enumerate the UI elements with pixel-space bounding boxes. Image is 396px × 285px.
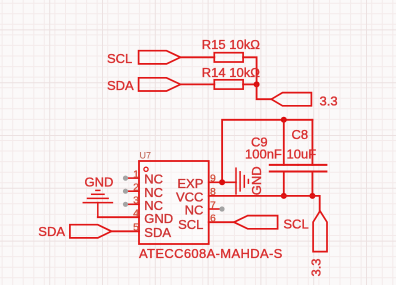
svg-text:SCL: SCL [107,51,132,66]
svg-text:GND: GND [249,166,264,195]
power flag 3.3 (bottom, pointing up) [313,211,327,252]
svg-text:10uF: 10uF [287,147,317,162]
net flag SDA (bottom) [70,225,112,238]
wire junction to 3.3 flag [257,84,272,99]
capacitor C8 [298,120,326,196]
resistor R14 [214,80,243,89]
wire SDA flag to pin 5 [112,230,140,232]
wire R14 to junction [243,83,257,85]
junction dot C8 bottom [309,193,315,199]
VCC rail wire pin8 [209,195,320,197]
svg-text:7: 7 [210,199,216,211]
svg-text:1: 1 [133,168,139,180]
ground symbol GND (rotated, right) [236,168,248,194]
net flag SDA [139,78,181,91]
svg-text:GND: GND [85,174,114,189]
svg-text:2: 2 [133,182,139,194]
svg-text:C8: C8 [292,127,309,142]
svg-text:SCL: SCL [178,217,203,232]
pin 7 unconnected dot [219,206,224,211]
pin 7 stub [209,208,221,210]
svg-text:SCL: SCL [283,217,308,232]
top rail wire [222,120,312,183]
power flag 3.3 (top) [271,93,311,106]
pin 1 stub [127,177,139,179]
IC U7 body [139,161,209,244]
pin 2 unconnected dot [123,189,128,194]
junction dot C9 top [281,117,287,123]
svg-text:SDA: SDA [38,224,65,239]
wire GND to pin 4 [98,216,139,218]
svg-text:ATECC608A-MAHDA-S: ATECC608A-MAHDA-S [139,246,283,261]
svg-text:5: 5 [133,222,139,234]
pin 9 wire to ground [209,181,236,183]
svg-text:U7: U7 [140,150,152,160]
wire SDA to R14 [181,83,215,85]
pin 2 stub [127,190,139,192]
svg-text:R15 10kΩ: R15 10kΩ [202,37,260,52]
svg-text:SDA: SDA [107,78,134,93]
pin 6 wire to SCL flag [209,221,234,223]
ground symbol GND (left) [83,190,112,217]
capacitor C9 [270,120,298,196]
svg-text:GND: GND [144,211,173,226]
resistor R15 [214,53,243,62]
pin 1 unconnected dot [123,176,128,181]
svg-text:4: 4 [133,208,139,220]
junction dot pin 9 [219,179,225,185]
net flag SCL (pin 6) [234,216,278,229]
svg-text:NC: NC [185,203,204,218]
svg-text:3.3: 3.3 [309,258,324,276]
pin 1 indicator circle [144,167,148,171]
junction dot C9 bottom [281,193,287,199]
pin 3 stub [127,203,139,205]
pin 3 unconnected dot [123,202,128,207]
svg-text:R14 10kΩ: R14 10kΩ [202,65,260,80]
svg-text:9: 9 [210,173,216,185]
svg-text:100nF: 100nF [245,146,282,161]
junction dot R14/R15 [254,81,260,87]
svg-text:6: 6 [210,213,216,225]
wire to 3.3 bottom flag [319,196,321,211]
svg-text:8: 8 [210,186,216,198]
net flag SCL [139,51,181,64]
wire R15 to junction [243,57,257,84]
svg-text:3.3: 3.3 [320,94,338,109]
svg-text:SDA: SDA [144,225,171,240]
svg-text:3: 3 [133,195,139,207]
wire SCL to R15 [181,56,215,58]
